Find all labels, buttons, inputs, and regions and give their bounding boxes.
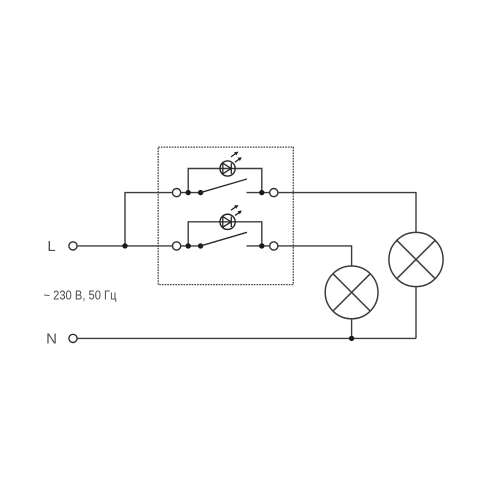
terminal: gang 2 input (173, 242, 181, 250)
wire: gang 2 input to pivot (181, 245, 201, 247)
node: LED 1 cathode tap (259, 190, 264, 195)
LED indicator HL1: emission arrow a (231, 152, 238, 157)
terminal N (69, 334, 77, 342)
svg-text:N: N (46, 331, 57, 348)
switch gang 1 (top, with LED indicator) (173, 152, 278, 197)
terminal L (69, 242, 77, 250)
switch gang 2 (bottom, with LED indicator) (173, 205, 278, 250)
LED indicator HL1: diode triangle (223, 163, 231, 174)
switch 1 blade (open) (201, 179, 247, 193)
wire: L terminal to switch 2 input (77, 245, 172, 247)
node: LED 1 anode tap (186, 190, 191, 195)
LED indicator HL2: emission arrow a (231, 205, 238, 210)
LED indicator HL1: emission arrow b (235, 157, 242, 162)
LED indicator HL2: cathode bar (230, 217, 232, 228)
node: switch 2 pivot (198, 243, 203, 248)
lamp EL2 (389, 232, 443, 286)
lamp EL1 (325, 266, 378, 319)
svg-text:~ 230 В, 50 Гц: ~ 230 В, 50 Гц (44, 288, 117, 302)
node: LED 2 anode tap (186, 243, 191, 248)
wire: gang 1 output to lamp EL2 (278, 193, 416, 233)
wire: N line (77, 337, 416, 339)
wire: gang 2 output to lamp EL1 (278, 246, 352, 266)
wire: LED 1 bypass loop (188, 169, 262, 193)
LED indicator HL1: envelope circle (220, 161, 235, 176)
switch 2 blade (open) (201, 232, 247, 246)
node: LED 2 cathode tap (259, 243, 264, 248)
LED indicator HL2: diode triangle (223, 217, 231, 228)
wire: switch 2 fixed contact to output (247, 245, 270, 247)
terminal: gang 1 output (270, 189, 278, 197)
node: switch 1 pivot (198, 190, 203, 195)
wire: gang 1 input to pivot (181, 192, 201, 194)
node: lamp EL1 to N junction (349, 336, 354, 341)
terminal: gang 2 output (270, 242, 278, 250)
node: L branch junction (122, 243, 127, 248)
wire: branch from L up to switch 1 input (125, 193, 172, 246)
wire: lamp EL1 to N (351, 319, 353, 339)
svg-text:L: L (47, 238, 55, 255)
wire: lamp EL2 to N (415, 287, 417, 339)
enclosure: 2-gang switch unit (dashed boundary) (158, 147, 293, 285)
LED indicator HL1: cathode bar (230, 163, 232, 174)
terminal: gang 1 input (173, 189, 181, 197)
wire: switch 1 fixed contact to output (247, 192, 270, 194)
wire: LED 2 bypass loop (188, 222, 262, 246)
LED indicator HL2: envelope circle (220, 214, 235, 229)
LED indicator HL2: emission arrow b (235, 211, 242, 216)
